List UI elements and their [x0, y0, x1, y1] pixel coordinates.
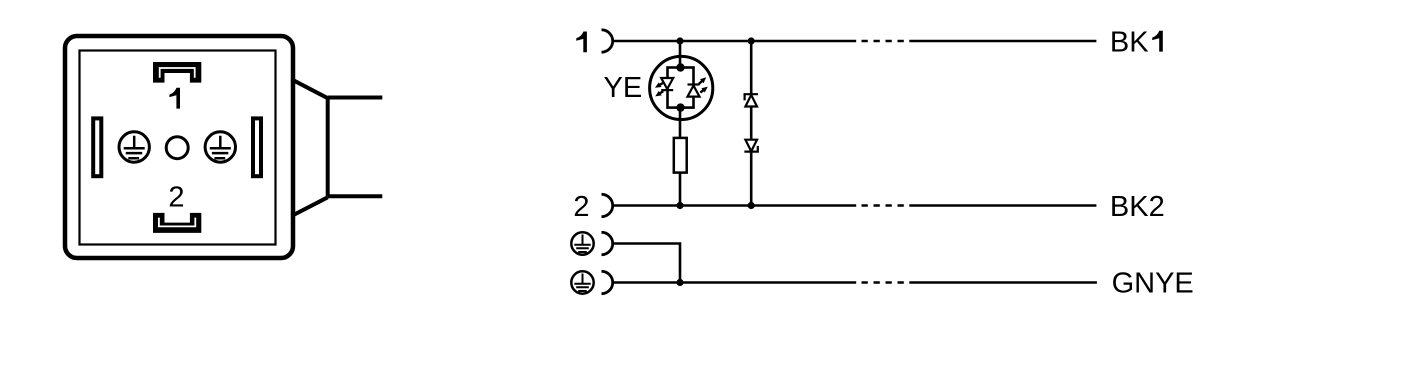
- cable lead upper: [328, 96, 383, 100]
- LED lamp circle: [650, 56, 713, 119]
- cable lead lower: [328, 194, 383, 198]
- earth contact symbol left (connector face): [119, 132, 149, 162]
- wire earth upper to junction: [613, 244, 680, 283]
- svg-text:BK2: BK2: [1110, 191, 1165, 223]
- wire GNYE solid left: [613, 281, 857, 284]
- junction dot wire2 LED branch: [676, 202, 683, 209]
- wire resistor to pin2 node: [679, 173, 682, 206]
- earth contact symbol right (connector face): [205, 132, 235, 162]
- junction dot wire2 suppressor branch: [748, 202, 755, 209]
- LED left (cathode down): [661, 78, 673, 90]
- earth contact symbol lower (circuit): [571, 271, 593, 293]
- suppressor branch wire: [750, 41, 753, 206]
- cable gland outline: [292, 79, 328, 216]
- LED left emission arrows: [655, 82, 663, 96]
- wire BK1 solid right: [909, 40, 1096, 43]
- LED frame top node dot: [676, 63, 684, 71]
- earth contact symbol upper (circuit): [571, 232, 593, 254]
- svg-text:BK: BK: [1110, 27, 1149, 59]
- wire BK2 dashed break: [862, 204, 906, 207]
- resistor: [674, 138, 687, 173]
- socket contact pin 2: [602, 194, 613, 216]
- pin 1 label: [169, 88, 180, 109]
- junction dot wire1 LED branch: [676, 37, 683, 44]
- left keying slot: [93, 118, 101, 176]
- connector inner face outline: [80, 51, 276, 245]
- zener diode lower (cathode down): [744, 140, 757, 152]
- svg-text:2: 2: [573, 191, 589, 223]
- junction dot earth: [676, 279, 683, 286]
- socket contact earth lower: [602, 271, 613, 293]
- LED right emission arrows: [699, 77, 708, 92]
- centre boss circle (connector face): [166, 137, 188, 159]
- wire BK1 dashed break: [862, 40, 906, 43]
- LED bridge frame: [668, 68, 694, 108]
- socket contact earth upper: [602, 232, 613, 254]
- svg-text:YE: YE: [604, 72, 643, 104]
- svg-text:2: 2: [168, 181, 184, 213]
- svg-text:GNYE: GNYE: [1112, 268, 1194, 300]
- wire from pin1 node into LED: [679, 41, 682, 68]
- pin 1 flat-tab contact: [153, 62, 201, 83]
- LED right (cathode up): [688, 85, 700, 97]
- pin 1 node label: [576, 32, 587, 53]
- zener diode upper (cathode up): [745, 94, 758, 106]
- wire GNYE dashed break: [862, 281, 906, 284]
- pin 2 flat-tab contact: [153, 213, 201, 233]
- wire LED to resistor: [679, 108, 682, 138]
- right keying slot: [253, 118, 261, 176]
- wire BK2 solid left: [613, 204, 857, 207]
- connector housing outer outline: [65, 36, 293, 258]
- socket contact pin 1: [602, 30, 613, 52]
- junction dot wire1 suppressor branch: [748, 37, 755, 44]
- wire BK2 solid right: [909, 204, 1096, 207]
- wire GNYE solid right: [909, 281, 1097, 284]
- wire BK1 solid left: [613, 40, 857, 43]
- LED frame bottom node dot: [676, 103, 684, 111]
